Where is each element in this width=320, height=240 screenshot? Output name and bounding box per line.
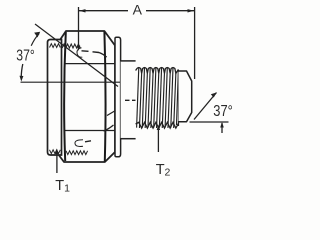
dimension A left arrowhead [79, 9, 86, 12]
thread section crest outline [136, 68, 179, 129]
internal thread zigzag top (on cylinder) [50, 44, 61, 48]
svg-text:A: A [133, 2, 143, 18]
hex corner edge line lower [65, 130, 115, 132]
dimension A line right part [146, 10, 194, 12]
left horizontal reference ray [21, 81, 121, 83]
extension line right [194, 7, 196, 79]
centerline dashes at neck [125, 99, 136, 101]
internal thread zigzag bottom (in hex) [66, 151, 88, 155]
neck between nut and threads [121, 61, 136, 139]
left 37 deg dimension arc (broken for text) [31, 34, 39, 46]
right dim up-arrow with stem [221, 123, 223, 133]
leader T1 [56, 151, 58, 173]
down arrow onto horizontal ray [20, 76, 24, 82]
bottom thread sawtooth [136, 122, 179, 128]
male tip with 37 degree flare chamfer [179, 71, 192, 122]
internal thread zigzag top (in hex) [62, 44, 80, 48]
hex chamfer arc right [104, 32, 105, 162]
37 deg flare seat diagonal ray [35, 24, 118, 87]
thread runout hook upper [77, 48, 82, 58]
svg-text:37°: 37° [16, 48, 35, 65]
extension line left (to seat plane) [78, 7, 80, 47]
thread section end line [178, 70, 180, 126]
nut collar (right face cylinder) [115, 37, 121, 157]
leader T2 [157, 127, 159, 152]
right horizontal reference line [190, 121, 229, 123]
right 37 deg angled ray [194, 93, 217, 120]
hex nut body outline [57, 31, 116, 162]
arrowhead of dimension arc touching ray [34, 32, 40, 38]
thread runout hook lower [75, 140, 83, 147]
top thread sawtooth [136, 68, 179, 74]
internal thread zigzag bottom (on cylinder) [50, 150, 61, 154]
dimension A line left part [79, 10, 128, 12]
hex corner edge line upper [65, 63, 115, 65]
hex chamfer arc left [64, 32, 66, 161]
dimension A right arrowhead [188, 9, 195, 12]
svg-text:37°: 37° [213, 103, 233, 120]
arrowhead on right angled ray [211, 93, 217, 98]
hidden cone dashes lower [85, 141, 91, 142]
thread flank hatch lines [137, 67, 179, 128]
hidden thread line dashes upper [82, 51, 109, 59]
nut tube-side cylinder (left) [48, 40, 62, 156]
extension line left arrow down [77, 46, 80, 52]
